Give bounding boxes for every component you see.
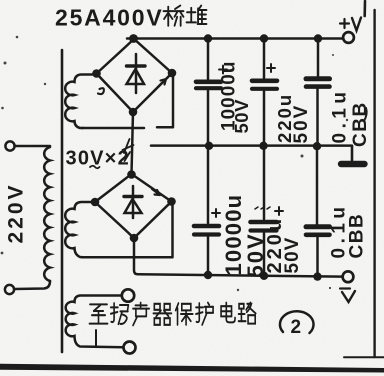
tick mark top right: [363, 1, 366, 16]
ground symbol on 0V rail: [341, 146, 365, 164]
svg-text:CBB: CBB: [347, 213, 368, 259]
transformer primary winding: [44, 147, 50, 281]
polarity curl inside S1: [98, 88, 104, 94]
transformer secondary winding S1 (top 30V): [65, 75, 96, 129]
terminal: +V output circle: [343, 32, 354, 43]
diode arrow on B1 lower-right edge: [158, 79, 166, 87]
svg-text:50V: 50V: [291, 104, 312, 144]
label: -V: [340, 289, 355, 303]
scan specks: [1, 9, 349, 291]
svg-text:50V: 50V: [231, 99, 252, 134]
svg-text:50V: 50V: [282, 237, 303, 274]
svg-text:220V: 220V: [5, 182, 28, 243]
capacitor C5 220u/50V (bottom): [251, 148, 284, 274]
label: 桥堆 (bridge stack) kanji: [164, 6, 207, 26]
right border line: [373, 10, 375, 357]
stray vertical mark below text: [95, 330, 97, 346]
transformer secondary winding S2 (bottom 30V): [65, 202, 94, 257]
bridge rectifier B2 diamond: [95, 174, 172, 238]
transformer tertiary winding (speaker protection feed): [66, 296, 123, 348]
label: +V: [340, 18, 361, 31]
junction dots on 0V rail: [205, 142, 321, 151]
bridge rectifier B1 diamond: [97, 39, 173, 112]
diode symbol inside B1: [127, 54, 146, 93]
wire: B2 minus to -V bottom rail: [134, 238, 342, 277]
transformer core line: [61, 50, 64, 352]
diode arrow on B2 upper-right edge: [152, 189, 160, 195]
wire: B1 minus to B2 plus vertical link: [132, 112, 134, 174]
wire: +V top rail: [127, 37, 343, 40]
terminal: primary top circle: [5, 141, 14, 150]
wire: S2 bottom to B2 right AC node: [82, 202, 173, 257]
wire: primary bottom lead: [14, 281, 50, 289]
label: 至扬声器保护电路 kanji row: [89, 303, 255, 326]
bridge B2 node dots: [91, 170, 176, 242]
wire: primary top lead: [15, 145, 51, 148]
adjacent figure corner line bottom right: [344, 356, 384, 358]
capacitor C4 10000u/50V (bottom): [194, 148, 220, 273]
svg-text:25A400V: 25A400V: [55, 5, 164, 31]
svg-text:30V×2: 30V×2: [66, 148, 130, 170]
capacitor C1 10000u/50V (top): [196, 42, 227, 144]
flourish on the 2: [123, 139, 134, 161]
circled 2 annotation: [280, 311, 314, 333]
junction dots on +V rail: [129, 34, 322, 43]
bridge B1 AC/DC node dots: [92, 69, 176, 117]
wire: S1 bottom to B1 right AC node: [82, 77, 173, 128]
svg-text:2: 2: [291, 317, 302, 338]
svg-text:0.1u: 0.1u: [330, 87, 351, 143]
terminal: tertiary top circle: [122, 289, 134, 301]
terminal: -V output circle: [343, 271, 354, 282]
terminal: primary bottom circle: [5, 285, 14, 294]
svg-text:CBB: CBB: [350, 101, 371, 147]
capacitor C2 220u/50V (top): [252, 42, 277, 144]
photo bottom edge band: [0, 364, 384, 373]
comma speck right side: [364, 108, 367, 121]
terminal: tertiary bottom circle: [124, 342, 136, 354]
capacitor C6 0.1u CBB (bottom): [306, 148, 330, 274]
junction dots on -V rail: [204, 271, 322, 281]
wire: middle 0V rail: [151, 144, 352, 147]
diode symbol inside B2: [124, 186, 142, 218]
capacitor C3 0.1u CBB (top): [306, 42, 330, 144]
